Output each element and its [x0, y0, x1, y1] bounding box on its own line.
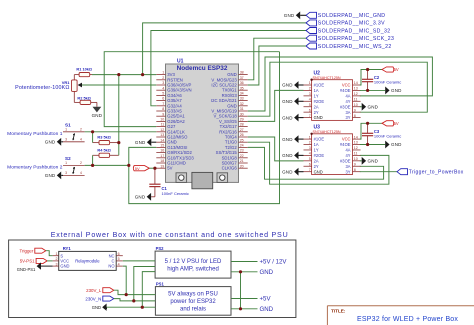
svg-text:4: 4 — [80, 138, 82, 142]
svg-text:12: 12 — [354, 146, 358, 150]
svg-text:23: 23 — [240, 149, 244, 153]
svg-text:SN74AHCT125N: SN74AHCT125N — [313, 76, 341, 80]
ground flag at pin 14 — [135, 138, 156, 146]
svg-text:3: 3 — [65, 138, 67, 142]
svg-text:2: 2 — [80, 128, 82, 132]
svg-text:SOLDERPAD__MIC_3.3V: SOLDERPAD__MIC_3.3V — [318, 21, 385, 27]
svg-text:11: 11 — [354, 152, 358, 156]
svg-text:R1 10kΩ: R1 10kΩ — [76, 67, 92, 72]
svg-text:4A: 4A — [345, 93, 350, 98]
svg-text:7: 7 — [309, 114, 311, 118]
svg-text:GND: GND — [284, 13, 295, 18]
svg-text:4A: 4A — [345, 148, 350, 153]
svg-text:1: 1 — [309, 81, 311, 85]
svg-text:230V_N: 230V_N — [85, 296, 101, 301]
svg-text:8: 8 — [354, 168, 356, 172]
wire Trigger to RY1 S — [46, 251, 53, 256]
wire pin29 G5 to U2 1A — [248, 90, 304, 121]
wire S1 branch to R3 — [92, 132, 94, 143]
svg-text:3: 3 — [56, 262, 58, 266]
wire VR1 wiper to pin3 — [82, 84, 156, 86]
wire 3V3 R1 to pin1 — [92, 74, 156, 76]
svg-text:1: 1 — [65, 161, 67, 165]
svg-text:5V: 5V — [167, 166, 172, 171]
svg-text:2Y: 2Y — [314, 164, 319, 169]
svg-text:GND: GND — [282, 137, 293, 142]
svg-text:26: 26 — [240, 133, 244, 137]
svg-text:2: 2 — [162, 76, 164, 80]
net label SOLDERPAD__MIC_SD_32 — [306, 28, 390, 35]
svg-text:#2OE: #2OE — [314, 153, 325, 158]
svg-text:1Y: 1Y — [314, 148, 319, 153]
capacitor C2 100nF — [362, 70, 401, 91]
wire pin31 G19 loop to U2 4A — [248, 57, 433, 111]
ground flag at U2 input enable — [282, 81, 303, 89]
junction R3 at pull-up riser — [117, 141, 120, 144]
svg-text:PS1: PS1 — [156, 281, 165, 286]
svg-text:3A: 3A — [345, 110, 350, 115]
svg-text:7: 7 — [162, 102, 164, 106]
wire pin26 G4 to U3 2A — [248, 137, 304, 161]
svg-text:8: 8 — [354, 114, 356, 118]
svg-text:Nodemcu ESP32: Nodemcu ESP32 — [177, 65, 228, 72]
ground flag at U3 input enable — [282, 151, 303, 159]
wire U2 pin13 4OE to ground — [360, 89, 385, 91]
svg-text:R4 5kΩ: R4 5kΩ — [97, 147, 111, 152]
svg-text:SN74AHCT125N: SN74AHCT125N — [313, 130, 341, 134]
svg-text:28: 28 — [240, 123, 244, 127]
wire 3V3 pull-up riser — [118, 75, 120, 156]
svg-text:GND: GND — [92, 305, 101, 310]
svg-text:GND: GND — [282, 153, 293, 158]
svg-text:GND: GND — [45, 140, 56, 145]
svg-text:GND: GND — [92, 113, 103, 118]
svg-text:38: 38 — [240, 71, 244, 75]
svg-text:27: 27 — [240, 128, 244, 132]
PSU box PS2 switched — [155, 246, 231, 278]
svg-text:1: 1 — [56, 252, 58, 256]
ground flag at U3 input enable — [282, 168, 303, 176]
svg-text:TITLE:: TITLE: — [331, 309, 346, 314]
ground flag at U2 input enable — [282, 97, 303, 105]
svg-text:and relais: and relais — [180, 306, 206, 312]
svg-text:11: 11 — [161, 123, 165, 127]
svg-text:12: 12 — [354, 92, 358, 96]
svg-text:#2OE: #2OE — [314, 99, 325, 104]
svg-text:GND: GND — [260, 269, 274, 276]
net label Trigger_to_PowerBox — [397, 169, 464, 176]
svg-text:13: 13 — [354, 87, 358, 91]
junction R1 pull-up riser — [117, 73, 120, 76]
svg-text:GND: GND — [45, 173, 56, 178]
svg-text:NO: NO — [108, 264, 114, 269]
svg-text:Relaymodule: Relaymodule — [75, 259, 100, 264]
svg-text:34: 34 — [240, 92, 244, 96]
svg-text:8: 8 — [162, 107, 164, 111]
title block — [327, 306, 474, 325]
capacitor C3 100nF — [362, 123, 401, 144]
svg-text:21: 21 — [240, 159, 244, 163]
svg-text:S1: S1 — [65, 123, 71, 128]
svg-text:5: 5 — [162, 92, 164, 96]
ground flag right of C3 — [385, 141, 402, 149]
relay module RY1 — [53, 246, 123, 271]
svg-text:Momentary Pushbutton 2: Momentary Pushbutton 2 — [7, 165, 63, 171]
net flag 230V_N — [85, 296, 113, 301]
svg-text:31: 31 — [240, 107, 244, 111]
power flag 5V at U3 — [382, 121, 399, 126]
svg-text:24: 24 — [240, 144, 244, 148]
svg-text:GND-PS1: GND-PS1 — [17, 267, 36, 272]
svg-text:14: 14 — [354, 135, 358, 139]
junction 230V_N branch — [132, 299, 135, 302]
svg-text:1A: 1A — [314, 88, 319, 93]
svg-text:100nF Ceramic: 100nF Ceramic — [162, 191, 189, 196]
svg-text:4Y: 4Y — [345, 99, 350, 104]
svg-text:14: 14 — [354, 81, 358, 85]
svg-text:GND: GND — [314, 115, 323, 120]
ground at C1 — [135, 193, 151, 201]
wire 230V_N to PS1 — [114, 299, 156, 301]
momentary pushbutton S1 — [7, 123, 84, 142]
wire 5V flag to pin 19 — [149, 167, 156, 169]
svg-text:4Y: 4Y — [345, 153, 350, 158]
svg-text:SOLDERPAD__MIC_GND: SOLDERPAD__MIC_GND — [318, 13, 386, 19]
wire ground branch to PS2 — [142, 272, 155, 308]
svg-text:GND: GND — [282, 99, 293, 104]
wire U3 3Y to Trigger_to_PowerBox — [360, 171, 397, 173]
svg-text:1Y: 1Y — [314, 93, 319, 98]
wire PS2 output +5V/12V — [231, 261, 258, 263]
svg-text:GND: GND — [60, 264, 69, 269]
resistor R4 5k — [93, 147, 119, 157]
svg-text:SOLDERPAD__MIC_SCK_23: SOLDERPAD__MIC_SCK_23 — [318, 36, 394, 42]
wire U3 VCC to 5V — [360, 123, 382, 139]
junction C2 top — [366, 68, 369, 71]
svg-text:2: 2 — [80, 161, 82, 165]
svg-text:3: 3 — [162, 81, 164, 85]
wire PS1 output +5V — [231, 298, 258, 300]
wire pin7 G32 to solderpad SD_32 — [151, 31, 306, 106]
svg-text:13: 13 — [354, 141, 358, 145]
wire 3V3 riser to solderpad 3.3V — [143, 23, 306, 75]
ground flag at U3 input enable — [282, 135, 303, 143]
svg-text:100nF Ceramic: 100nF Ceramic — [374, 134, 401, 139]
svg-text:#3OE: #3OE — [340, 158, 351, 163]
wire U3 pin13 4OE to ground — [360, 144, 385, 146]
svg-text:S2: S2 — [65, 156, 71, 161]
ground flag at U2 input enable — [282, 114, 303, 122]
svg-text:9: 9 — [354, 162, 356, 166]
svg-text:Momentary Pushbutton 1: Momentary Pushbutton 1 — [7, 131, 63, 137]
svg-text:18: 18 — [160, 159, 164, 163]
power flag 5V at U2 — [382, 67, 399, 72]
ground below R2 — [92, 107, 103, 118]
svg-text:4: 4 — [80, 171, 82, 175]
svg-text:5V: 5V — [394, 121, 399, 126]
svg-text:External Power Box with one co: External Power Box with one constant and… — [51, 231, 289, 239]
svg-text:GND: GND — [282, 169, 293, 174]
wire ground to PS1 — [106, 307, 108, 309]
svg-text:#4OE: #4OE — [340, 142, 351, 147]
svg-text:10: 10 — [160, 118, 164, 122]
svg-text:RY1: RY1 — [63, 246, 72, 251]
svg-text:2: 2 — [56, 257, 58, 261]
svg-text:9: 9 — [162, 112, 164, 116]
svg-text:6: 6 — [309, 162, 311, 166]
svg-text:VCC: VCC — [342, 137, 351, 142]
ground at S2 — [45, 172, 63, 180]
svg-text:U1: U1 — [177, 59, 184, 65]
svg-text:4: 4 — [118, 262, 120, 266]
svg-text:GND: GND — [368, 159, 379, 164]
svg-text:9: 9 — [354, 108, 356, 112]
nodemcu ESP32 module U1 — [156, 59, 247, 189]
svg-text:1: 1 — [309, 135, 311, 139]
svg-text:30: 30 — [240, 112, 244, 116]
svg-text:1A: 1A — [314, 142, 319, 147]
svg-text:#1OE: #1OE — [314, 83, 325, 88]
ground flag at solderpad MIC_GND — [284, 11, 306, 19]
net flag 5V-PS1 — [20, 258, 47, 263]
svg-text:29: 29 — [240, 118, 244, 122]
junction NO at 230V_L — [125, 293, 128, 296]
svg-text:10: 10 — [354, 103, 358, 107]
junction PS1 GND — [239, 307, 242, 310]
svg-text:10: 10 — [354, 157, 358, 161]
ground flag at power box — [92, 304, 107, 311]
resistor R2 5k — [74, 95, 97, 107]
svg-text:3Y: 3Y — [345, 169, 350, 174]
wire PS2 output GND — [231, 271, 258, 273]
svg-text:16: 16 — [160, 149, 164, 153]
wire pin37 G23 to solderpad SCK_23 — [248, 38, 306, 80]
junction PS2 GND — [239, 270, 242, 273]
svg-text:3: 3 — [309, 92, 311, 96]
svg-text:2A: 2A — [314, 104, 319, 109]
buffer IC U3 SN74AHCT125N — [304, 124, 361, 174]
resistor R1 10k — [74, 67, 92, 77]
svg-text:PS2: PS2 — [156, 246, 165, 251]
svg-text:1: 1 — [65, 128, 67, 132]
svg-text:36: 36 — [240, 81, 244, 85]
svg-text:5: 5 — [309, 157, 311, 161]
wire joining PSU grounds — [240, 272, 242, 309]
svg-text:2: 2 — [309, 87, 311, 91]
svg-text:+5V / 12V: +5V / 12V — [260, 259, 288, 266]
svg-text:5V: 5V — [394, 67, 399, 72]
capacitor C1 100nF — [149, 168, 189, 197]
junction ground branch — [141, 306, 144, 309]
svg-text:high AMP, switched: high AMP, switched — [167, 266, 219, 272]
svg-text:GND: GND — [282, 83, 293, 88]
wire S1 to pin12 G14 — [85, 131, 157, 133]
ground flag at U3 3OE — [360, 157, 379, 165]
net flag Trigger — [20, 248, 46, 253]
svg-text:GND: GND — [135, 195, 146, 200]
wire PS1 output GND — [231, 308, 258, 310]
svg-text:6: 6 — [118, 252, 120, 256]
junction 3V3 pad riser — [141, 73, 144, 76]
svg-text:1: 1 — [162, 71, 164, 75]
net label SOLDERPAD__MIC_3.3V — [306, 20, 385, 27]
svg-text:100nF Ceramic: 100nF Ceramic — [374, 80, 401, 85]
external power box outline — [9, 231, 296, 318]
svg-text:2Y: 2Y — [314, 110, 319, 115]
svg-text:17: 17 — [160, 154, 164, 158]
wire S2 to G13 net — [85, 164, 129, 166]
svg-text:ESP32 for WLED + Power Box: ESP32 for WLED + Power Box — [357, 316, 458, 323]
wire pin36 G22 to solderpad WS_22 — [248, 46, 306, 85]
power flag 5V at pin 19 — [133, 166, 149, 171]
svg-text:power for ESP32: power for ESP32 — [170, 299, 216, 305]
svg-text:GND: GND — [282, 115, 293, 120]
wire RY1 NO branch down to 230V_L — [123, 266, 126, 295]
svg-text:GND: GND — [260, 306, 274, 313]
svg-text:CLK/G6: CLK/G6 — [222, 166, 238, 171]
svg-text:Trigger: Trigger — [20, 248, 34, 253]
junction S2 wire — [91, 164, 94, 167]
svg-text:SOLDERPAD__MIC_SD_32: SOLDERPAD__MIC_SD_32 — [318, 28, 391, 34]
svg-text:+5V: +5V — [260, 296, 272, 303]
svg-text:11: 11 — [354, 97, 358, 101]
wire pin11 G27 loop to U3 2A riser — [104, 52, 279, 127]
svg-text:7: 7 — [309, 168, 311, 172]
svg-text:#3OE: #3OE — [340, 104, 351, 109]
svg-text:20: 20 — [240, 164, 244, 168]
svg-text:#1OE: #1OE — [314, 137, 325, 142]
junction S2 at G13 riser — [127, 164, 130, 167]
svg-text:37: 37 — [240, 76, 244, 80]
svg-text:6: 6 — [309, 108, 311, 112]
svg-text:12: 12 — [160, 128, 164, 132]
wire pin25 G0 loop below U3 to U3 4Y — [248, 142, 389, 184]
svg-text:5: 5 — [309, 103, 311, 107]
svg-text:14: 14 — [160, 138, 164, 142]
svg-text:Potentiometer-100KΩ: Potentiometer-100KΩ — [15, 85, 69, 91]
svg-text:2: 2 — [309, 141, 311, 145]
junction C2 bottom — [366, 89, 369, 92]
wire 230V_L to PS1 — [114, 290, 156, 294]
svg-text:R3 5kΩ: R3 5kΩ — [97, 135, 111, 140]
ground at S1 — [45, 138, 63, 146]
net label SOLDERPAD__MIC_GND — [306, 12, 385, 19]
svg-text:Trigger_to_PowerBox: Trigger_to_PowerBox — [409, 169, 464, 175]
svg-text:2A: 2A — [314, 158, 319, 163]
junction S1 wire — [91, 130, 94, 133]
wire pin30 G18 loop to U2 3A — [248, 62, 428, 116]
svg-text:#4OE: #4OE — [340, 88, 351, 93]
svg-text:SOLDERPAD__MIC_WS_22: SOLDERPAD__MIC_WS_22 — [318, 44, 392, 50]
svg-text:6: 6 — [162, 97, 164, 101]
svg-text:13: 13 — [160, 133, 164, 137]
ground flag right of C2 — [385, 87, 402, 95]
svg-text:GND: GND — [135, 140, 146, 145]
svg-text:32: 32 — [240, 102, 244, 106]
ground flag at U2 3OE — [360, 103, 379, 111]
svg-text:5V always on PSU: 5V always on PSU — [168, 292, 218, 298]
svg-text:5 / 12 V PSU for LED: 5 / 12 V PSU for LED — [165, 259, 222, 265]
svg-text:4: 4 — [162, 86, 164, 90]
svg-text:R2 5kΩ: R2 5kΩ — [77, 95, 91, 100]
svg-text:GND: GND — [368, 104, 379, 109]
wire 5V-PS1 to RY1 VCC — [47, 260, 53, 262]
svg-text:35: 35 — [240, 86, 244, 90]
svg-text:4: 4 — [309, 97, 311, 101]
resistor R3 5k — [93, 135, 119, 145]
svg-text:5V: 5V — [135, 166, 140, 171]
svg-text:15: 15 — [160, 144, 164, 148]
PSU box PS1 always on — [155, 281, 231, 315]
svg-text:19: 19 — [160, 164, 164, 168]
svg-text:GND: GND — [314, 169, 323, 174]
svg-text:33: 33 — [240, 97, 244, 101]
svg-text:5V-PS1: 5V-PS1 — [20, 259, 35, 264]
junction C3 bottom — [366, 143, 369, 146]
svg-text:4: 4 — [309, 152, 311, 156]
wire pin24 G2 loop below U3 to U3 3A — [248, 147, 384, 179]
momentary pushbutton S2 — [7, 156, 84, 175]
net label SOLDERPAD__MIC_SCK_23 — [306, 35, 394, 42]
svg-text:22: 22 — [240, 154, 244, 158]
wire 230V_N branch to PS2 — [134, 267, 155, 301]
svg-text:VCC: VCC — [342, 83, 351, 88]
svg-text:5: 5 — [118, 257, 120, 261]
svg-text:3: 3 — [309, 146, 311, 150]
svg-text:GND: GND — [391, 142, 402, 147]
wire U2 VCC to 5V — [360, 70, 382, 86]
wire pin15 G13 loop under module to U2 4A riser — [129, 52, 280, 204]
junction 5V pin19 — [153, 167, 156, 170]
svg-text:3A: 3A — [345, 164, 350, 169]
svg-text:25: 25 — [240, 138, 244, 142]
ground flag GND-PS1 — [17, 262, 53, 271]
svg-text:230V_L: 230V_L — [86, 288, 102, 293]
net flag 230V_L — [86, 288, 114, 293]
potentiometer VR1 — [15, 75, 82, 103]
junction C3 top — [366, 122, 369, 125]
buffer IC U2 SN74AHCT125N — [304, 70, 361, 120]
svg-text:3: 3 — [65, 171, 67, 175]
svg-text:3Y: 3Y — [345, 115, 350, 120]
wire R4 branch to S2 — [92, 155, 94, 165]
svg-text:GND: GND — [391, 88, 402, 93]
net label SOLDERPAD__MIC_WS_22 — [306, 43, 392, 50]
wire RY1 C to PS2 — [123, 260, 155, 262]
